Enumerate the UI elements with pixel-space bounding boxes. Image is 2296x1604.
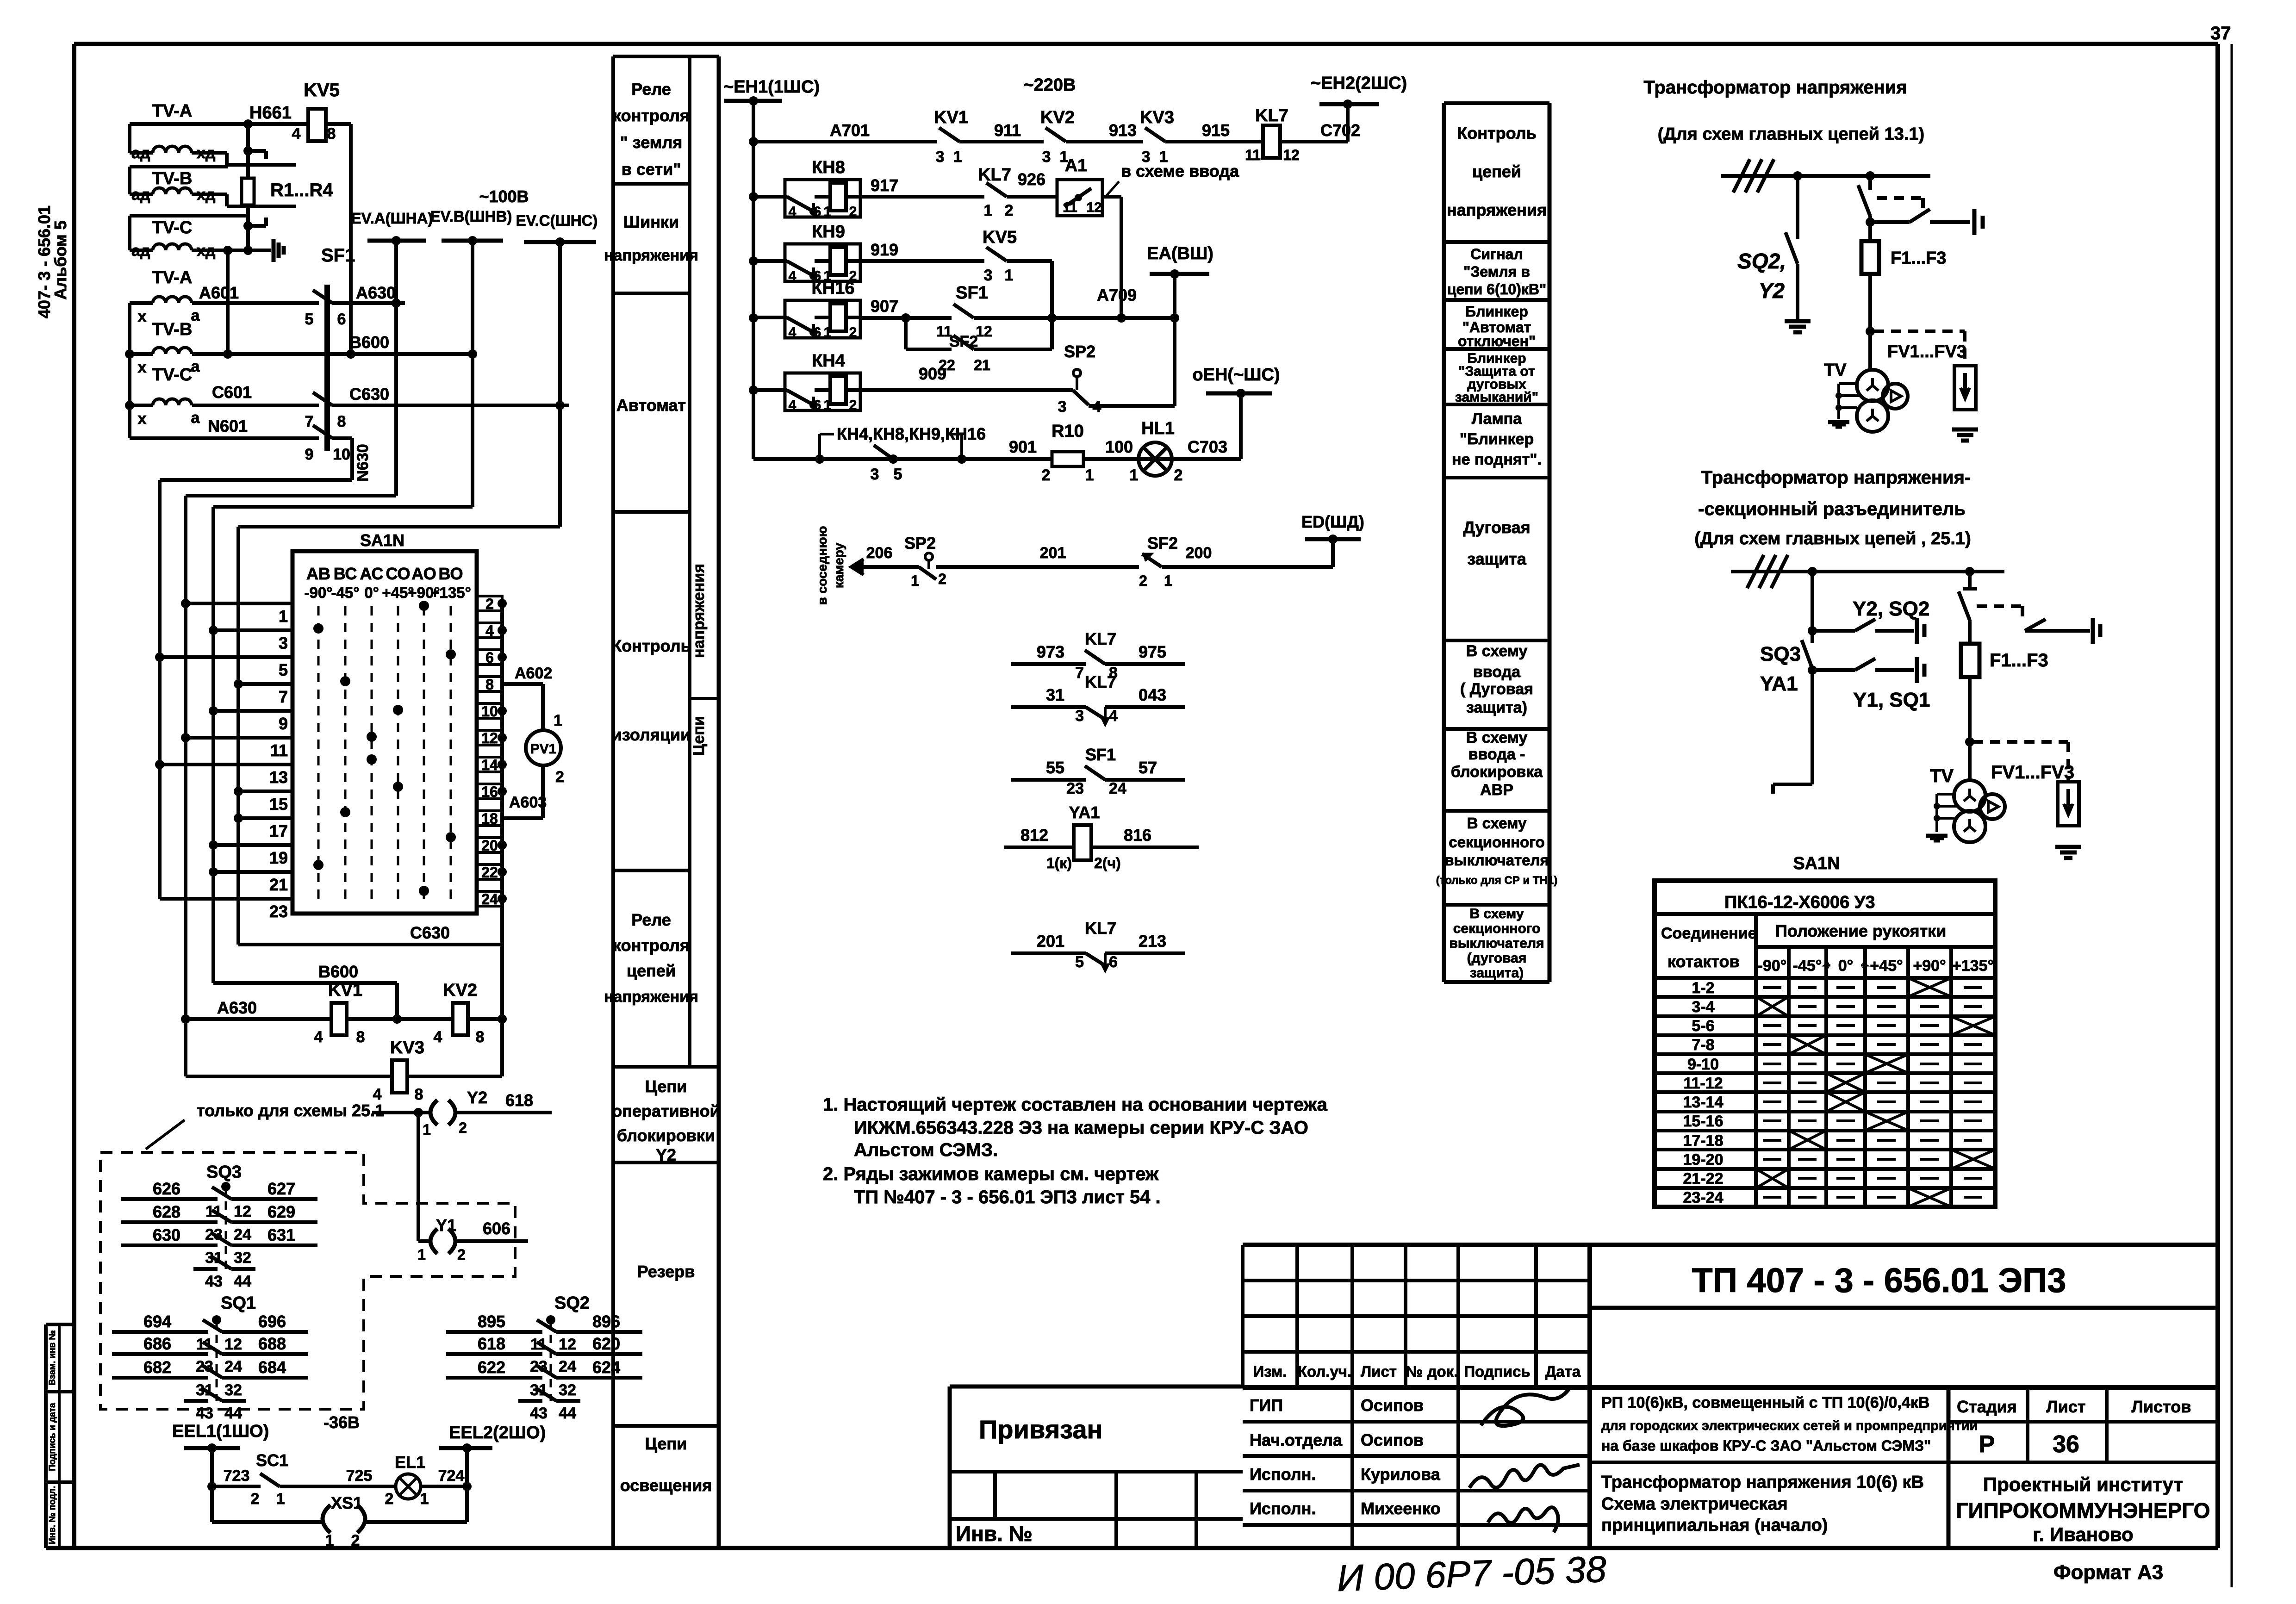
svg-text:4: 4 xyxy=(789,204,796,219)
svg-text:23-24: 23-24 xyxy=(1683,1189,1724,1206)
svg-text:цепей: цепей xyxy=(627,961,676,980)
svg-text:защита: защита xyxy=(1467,549,1527,568)
svg-text:Положение рукоятки: Положение рукоятки xyxy=(1775,921,1946,940)
svg-text:1: 1 xyxy=(417,1246,426,1263)
svg-text:KV5: KV5 xyxy=(983,228,1017,247)
svg-text:7-8: 7-8 xyxy=(1692,1036,1714,1054)
svg-text:АО: АО xyxy=(411,564,436,583)
svg-text:ввода -: ввода - xyxy=(1468,746,1525,763)
svg-text:Курилова: Курилова xyxy=(1361,1465,1441,1484)
svg-text:907: 907 xyxy=(871,297,898,316)
svg-text:18: 18 xyxy=(481,810,498,827)
svg-text:Y2: Y2 xyxy=(656,1145,676,1164)
svg-text:-45°: -45° xyxy=(1793,957,1822,975)
svg-text:x: x xyxy=(138,308,147,325)
svg-text:+45°: +45° xyxy=(1870,957,1903,975)
svg-text:защита): защита) xyxy=(1470,965,1524,981)
svg-text:Подпись: Подпись xyxy=(1464,1363,1530,1380)
svg-text:на базе шкафов КРУ-С ЗАО "Альс: на базе шкафов КРУ-С ЗАО "Альстом СЭМЗ" xyxy=(1601,1437,1931,1454)
svg-text:2: 2 xyxy=(1174,466,1183,484)
svg-text:Реле: Реле xyxy=(631,80,671,99)
svg-text:C601: C601 xyxy=(212,383,252,402)
svg-text:31: 31 xyxy=(1046,685,1064,704)
svg-text:36: 36 xyxy=(2053,1431,2079,1458)
svg-text:32: 32 xyxy=(234,1249,251,1267)
svg-text:Привязан: Привязан xyxy=(979,1415,1102,1444)
svg-text:1: 1 xyxy=(1085,466,1094,484)
svg-text:SF2: SF2 xyxy=(1147,534,1178,553)
svg-text:N601: N601 xyxy=(208,417,248,435)
svg-text:0°: 0° xyxy=(364,584,379,601)
svg-text:606: 606 xyxy=(483,1219,510,1238)
svg-text:10: 10 xyxy=(481,703,498,720)
svg-text:8: 8 xyxy=(337,413,346,430)
svg-text:КН9: КН9 xyxy=(812,222,845,242)
svg-text:KV1: KV1 xyxy=(328,981,362,1000)
svg-text:"Земля в: "Земля в xyxy=(1463,263,1530,280)
svg-text:1: 1 xyxy=(824,325,832,340)
svg-text:Y2: Y2 xyxy=(1759,279,1785,303)
svg-text:13: 13 xyxy=(269,768,288,787)
svg-text:B600: B600 xyxy=(318,962,358,981)
svg-text:ТП 407 - 3 - 656.01 ЭП3: ТП 407 - 3 - 656.01 ЭП3 xyxy=(1692,1261,2066,1299)
svg-text:Стадия: Стадия xyxy=(1957,1397,2017,1416)
svg-text:SA1N: SA1N xyxy=(1793,854,1840,873)
svg-text:Цепи: Цепи xyxy=(645,1434,687,1453)
svg-text:x: x xyxy=(138,359,147,376)
svg-text:"Блинкер: "Блинкер xyxy=(1460,430,1534,448)
svg-text:EV.C(ШНС): EV.C(ШНС) xyxy=(516,212,598,229)
svg-text:контроля: контроля xyxy=(613,936,690,955)
svg-text:оперативной: оперативной xyxy=(612,1101,720,1120)
svg-text:в соседнюю: в соседнюю xyxy=(815,526,829,605)
svg-text:A630: A630 xyxy=(217,998,257,1017)
svg-text:EV.A(ШНА): EV.A(ШНА) xyxy=(351,210,433,227)
svg-text:973: 973 xyxy=(1037,642,1064,661)
svg-text:911: 911 xyxy=(994,121,1021,140)
svg-text:43: 43 xyxy=(205,1273,223,1290)
svg-text:200: 200 xyxy=(1186,544,1212,562)
svg-text:ПК16-12-Х6006 У3: ПК16-12-Х6006 У3 xyxy=(1724,893,1875,912)
svg-text:Нач.отдела: Нач.отдела xyxy=(1250,1430,1343,1449)
svg-text:SA1N: SA1N xyxy=(360,531,404,550)
svg-text:909: 909 xyxy=(919,364,946,383)
svg-text:682: 682 xyxy=(143,1358,171,1377)
svg-text:5-6: 5-6 xyxy=(1692,1017,1714,1035)
svg-text:в сети": в сети" xyxy=(622,160,681,179)
svg-text:EV.B(ШНВ): EV.B(ШНВ) xyxy=(430,208,512,225)
svg-text:ТП №407 - 3 - 656.01 ЭП3 лист: ТП №407 - 3 - 656.01 ЭП3 лист 54 . xyxy=(854,1187,1161,1207)
svg-text:975: 975 xyxy=(1139,642,1166,661)
svg-text:SQ2: SQ2 xyxy=(554,1293,590,1313)
svg-text:15-16: 15-16 xyxy=(1683,1113,1724,1130)
svg-text:x: x xyxy=(138,410,147,428)
svg-text:a: a xyxy=(191,358,200,375)
svg-text:A709: A709 xyxy=(1097,286,1137,305)
svg-text:секционного: секционного xyxy=(1453,921,1541,936)
svg-text:7: 7 xyxy=(1075,664,1084,682)
svg-text:котактов: котактов xyxy=(1668,952,1740,971)
svg-text:3: 3 xyxy=(871,466,879,483)
svg-text:1-2: 1-2 xyxy=(1692,979,1714,997)
svg-text:21: 21 xyxy=(269,875,288,894)
svg-text:a: a xyxy=(191,409,200,427)
svg-text:3: 3 xyxy=(279,634,288,653)
svg-text:627: 627 xyxy=(268,1179,295,1198)
svg-text:Резерв: Резерв xyxy=(637,1262,695,1281)
svg-text:Реле: Реле xyxy=(631,910,671,929)
svg-text:1: 1 xyxy=(984,202,993,219)
svg-text:2: 2 xyxy=(849,398,857,413)
svg-text:Шинки: Шинки xyxy=(623,212,679,231)
svg-text:8: 8 xyxy=(476,1028,485,1046)
svg-text:6: 6 xyxy=(814,398,821,413)
svg-text:2: 2 xyxy=(555,768,564,786)
svg-text:Альбом 5: Альбом 5 xyxy=(51,220,70,299)
svg-text:55: 55 xyxy=(1046,758,1064,777)
svg-text:1. Настоящий чертеж составлен: 1. Настоящий чертеж составлен на основан… xyxy=(823,1094,1328,1115)
svg-text:16: 16 xyxy=(481,783,498,800)
svg-text:Контроль: Контроль xyxy=(611,636,691,655)
svg-text:628: 628 xyxy=(153,1202,180,1221)
svg-text:2. Ряды зажимов камеры см. че: 2. Ряды зажимов камеры см. чертеж xyxy=(823,1164,1159,1184)
svg-text:СО: СО xyxy=(386,564,410,583)
svg-text:44: 44 xyxy=(559,1405,576,1422)
svg-text:-36В: -36В xyxy=(324,1413,360,1432)
svg-text:Трансформатор напряжения: Трансформатор напряжения xyxy=(1643,77,1907,98)
svg-text:АВ: АВ xyxy=(306,564,330,583)
svg-text:АС: АС xyxy=(360,564,383,583)
svg-text:ЕА(ВШ): ЕА(ВШ) xyxy=(1147,244,1213,263)
svg-text:6: 6 xyxy=(485,649,494,666)
svg-text:Цепи: Цепи xyxy=(645,1077,687,1096)
svg-text:HL1: HL1 xyxy=(1141,419,1175,438)
svg-text:~EH2(2ШС): ~EH2(2ШС) xyxy=(1311,74,1407,93)
svg-text:4: 4 xyxy=(434,1028,442,1046)
svg-text:FV1...FV3: FV1...FV3 xyxy=(1887,342,1966,361)
svg-text:213: 213 xyxy=(1139,932,1166,951)
svg-text:напряжения: напряжения xyxy=(604,988,698,1006)
svg-text:43: 43 xyxy=(196,1405,213,1422)
svg-text:917: 917 xyxy=(871,176,898,195)
svg-text:919: 919 xyxy=(871,240,898,259)
svg-text:723: 723 xyxy=(224,1467,250,1485)
svg-text:Изм.: Изм. xyxy=(1253,1363,1287,1380)
svg-text:812: 812 xyxy=(1020,826,1048,845)
svg-text:SQ3: SQ3 xyxy=(206,1163,242,1182)
svg-text:1: 1 xyxy=(824,398,832,413)
svg-text:6: 6 xyxy=(814,204,821,219)
svg-text:896: 896 xyxy=(592,1312,620,1331)
svg-text:9: 9 xyxy=(305,446,314,463)
svg-text:2(ч): 2(ч) xyxy=(1094,855,1121,871)
svg-text:5: 5 xyxy=(305,311,314,328)
svg-text:A602: A602 xyxy=(515,665,552,682)
svg-text:10: 10 xyxy=(333,446,350,463)
svg-text:ВО: ВО xyxy=(438,564,463,583)
svg-text:(Для схем главных цепей 13.1): (Для схем главных цепей 13.1) xyxy=(1658,124,1924,144)
svg-text:TV-A: TV-A xyxy=(152,268,193,287)
svg-text:1: 1 xyxy=(1005,267,1014,284)
svg-text:14: 14 xyxy=(481,757,498,773)
svg-text:23: 23 xyxy=(269,902,288,921)
svg-text:Формат А3: Формат А3 xyxy=(2053,1561,2163,1584)
svg-text:12: 12 xyxy=(1086,200,1101,215)
svg-text:3: 3 xyxy=(1042,148,1051,166)
svg-text:KV3: KV3 xyxy=(390,1038,424,1057)
svg-text:201: 201 xyxy=(1037,932,1064,951)
svg-text:R1...R4: R1...R4 xyxy=(270,180,333,200)
svg-text:895: 895 xyxy=(478,1312,505,1331)
svg-text:724: 724 xyxy=(438,1467,465,1485)
svg-text:г. Иваново: г. Иваново xyxy=(2033,1523,2133,1545)
svg-text:R10: R10 xyxy=(1052,422,1084,441)
svg-text:KV5: KV5 xyxy=(304,80,340,100)
svg-text:2: 2 xyxy=(459,1119,467,1136)
svg-text:TV: TV xyxy=(1824,361,1847,380)
svg-text:KL7: KL7 xyxy=(1255,106,1288,125)
svg-text:Трансформатор напряжения 10(6): Трансформатор напряжения 10(6) кВ xyxy=(1601,1473,1924,1492)
svg-text:Y1, SQ1: Y1, SQ1 xyxy=(1853,689,1930,711)
svg-text:24: 24 xyxy=(234,1226,251,1243)
svg-text:A701: A701 xyxy=(830,121,870,140)
svg-text:11: 11 xyxy=(1063,200,1077,215)
svg-text:KV2: KV2 xyxy=(1040,108,1075,127)
svg-text:КН4: КН4 xyxy=(812,351,845,371)
svg-text:12: 12 xyxy=(224,1336,242,1353)
svg-text:2: 2 xyxy=(849,325,857,340)
svg-text:4: 4 xyxy=(789,398,796,413)
svg-text:2: 2 xyxy=(485,596,494,612)
svg-text:SP2: SP2 xyxy=(1064,342,1095,361)
svg-text:Осипов: Осипов xyxy=(1361,1396,1424,1415)
svg-text:12: 12 xyxy=(234,1203,251,1220)
svg-text:201: 201 xyxy=(1040,544,1066,562)
svg-text:8: 8 xyxy=(356,1028,365,1046)
svg-text:24: 24 xyxy=(481,891,498,908)
svg-text:Сигнал: Сигнал xyxy=(1470,246,1523,262)
svg-text:1: 1 xyxy=(911,572,919,589)
svg-text:В схему: В схему xyxy=(1470,906,1524,921)
svg-text:блокировки: блокировки xyxy=(617,1126,715,1145)
svg-text:YA1: YA1 xyxy=(1069,803,1100,822)
svg-text:( Дуговая: ( Дуговая xyxy=(1460,680,1533,698)
svg-text:901: 901 xyxy=(1009,437,1037,456)
svg-text:секционного: секционного xyxy=(1449,833,1544,851)
svg-text:В схему: В схему xyxy=(1466,729,1528,746)
svg-text:ГИПРОКОММУНЭНЕРГО: ГИПРОКОММУНЭНЕРГО xyxy=(1956,1498,2210,1523)
svg-text:отключен": отключен" xyxy=(1458,333,1536,349)
svg-text:(только для СР и ТН1): (только для СР и ТН1) xyxy=(1436,874,1557,887)
svg-text:2: 2 xyxy=(385,1490,394,1508)
svg-text:1: 1 xyxy=(276,1490,285,1508)
svg-text:725: 725 xyxy=(346,1467,373,1485)
svg-text:KL7: KL7 xyxy=(1085,629,1116,648)
svg-text:4: 4 xyxy=(485,622,494,639)
svg-text:630: 630 xyxy=(153,1225,180,1244)
svg-text:17: 17 xyxy=(269,821,288,840)
svg-text:-секционный разъединитель: -секционный разъединитель xyxy=(1698,499,1966,519)
svg-text:2: 2 xyxy=(1042,466,1051,484)
svg-text:ВС: ВС xyxy=(334,564,357,583)
svg-text:Y2, SQ2: Y2, SQ2 xyxy=(1853,597,1929,620)
svg-text:23: 23 xyxy=(1066,780,1084,797)
svg-text:100: 100 xyxy=(1105,437,1133,456)
svg-text:624: 624 xyxy=(592,1358,620,1377)
svg-text:Михеенко: Михеенко xyxy=(1361,1499,1441,1518)
svg-text:2: 2 xyxy=(457,1246,466,1263)
svg-text:SF1: SF1 xyxy=(1085,745,1116,764)
svg-text:11-12: 11-12 xyxy=(1683,1075,1723,1092)
svg-text:SP2: SP2 xyxy=(904,534,936,553)
svg-text:контроля: контроля xyxy=(613,106,690,125)
svg-text:(Для схем главных цепей , 25.: (Для схем главных цепей , 25.1) xyxy=(1694,529,1971,548)
svg-text:926: 926 xyxy=(1018,170,1045,189)
svg-text:принципиальная (начало): принципиальная (начало) xyxy=(1601,1516,1828,1535)
svg-text:KL7: KL7 xyxy=(1085,919,1116,938)
svg-text:C703: C703 xyxy=(1188,437,1227,456)
svg-text:камеру: камеру xyxy=(832,542,846,588)
svg-text:57: 57 xyxy=(1139,758,1157,777)
svg-text:19-20: 19-20 xyxy=(1683,1151,1724,1169)
svg-text:TV-A: TV-A xyxy=(152,101,193,121)
svg-text:SC1: SC1 xyxy=(256,1451,288,1470)
svg-text:37: 37 xyxy=(2210,23,2231,44)
svg-text:629: 629 xyxy=(268,1202,295,1221)
svg-text:2: 2 xyxy=(849,204,857,219)
svg-text:только для схемы 25.1: только для схемы 25.1 xyxy=(197,1101,384,1120)
svg-text:(дуговая: (дуговая xyxy=(1467,951,1527,966)
svg-text:напряжения: напряжения xyxy=(1447,200,1547,219)
svg-text:цепей: цепей xyxy=(1472,162,1521,181)
svg-text:1: 1 xyxy=(554,712,562,729)
svg-text:2: 2 xyxy=(1005,202,1014,219)
svg-text:6: 6 xyxy=(337,311,346,328)
svg-text:1: 1 xyxy=(824,204,832,219)
svg-text:В схему: В схему xyxy=(1467,814,1527,832)
svg-text:19: 19 xyxy=(269,848,288,867)
svg-text:освещения: освещения xyxy=(620,1476,712,1495)
svg-text:11: 11 xyxy=(270,741,288,760)
svg-text:8: 8 xyxy=(415,1086,423,1103)
svg-text:2: 2 xyxy=(351,1532,360,1549)
svg-text:1: 1 xyxy=(325,1532,334,1549)
svg-text:KV1: KV1 xyxy=(934,108,968,127)
svg-text:Y1: Y1 xyxy=(436,1216,456,1235)
svg-text:Y2: Y2 xyxy=(467,1088,487,1107)
svg-text:C630: C630 xyxy=(410,923,450,942)
svg-text:ЕD(ШД): ЕD(ШД) xyxy=(1301,512,1364,531)
svg-text:4: 4 xyxy=(314,1028,323,1046)
svg-text:напряжения: напряжения xyxy=(604,247,698,264)
svg-text:20: 20 xyxy=(481,837,498,854)
svg-text:Взам. инв №: Взам. инв № xyxy=(48,1330,57,1385)
svg-text:~220В: ~220В xyxy=(1023,75,1076,95)
svg-text:KV2: KV2 xyxy=(443,981,477,1000)
svg-text:1: 1 xyxy=(953,148,962,166)
svg-text:Р: Р xyxy=(1979,1431,1995,1458)
svg-text:A603: A603 xyxy=(509,794,547,811)
svg-text:3: 3 xyxy=(1075,707,1084,725)
svg-text:-90°: -90° xyxy=(1758,957,1787,975)
svg-text:24: 24 xyxy=(559,1358,576,1375)
svg-text:SF1: SF1 xyxy=(956,283,988,303)
svg-text:2: 2 xyxy=(938,571,946,587)
svg-text:913: 913 xyxy=(1109,121,1137,140)
svg-text:17-18: 17-18 xyxy=(1683,1132,1724,1150)
svg-text:620: 620 xyxy=(592,1334,620,1353)
svg-text:PV1: PV1 xyxy=(530,741,557,757)
svg-text:ад: ад xyxy=(131,186,150,204)
svg-text:EL1: EL1 xyxy=(395,1453,425,1472)
svg-text:А1: А1 xyxy=(1065,156,1088,175)
svg-text:1: 1 xyxy=(1130,466,1139,484)
svg-text:15: 15 xyxy=(269,795,288,814)
svg-text:KL7: KL7 xyxy=(1085,672,1116,691)
svg-text:696: 696 xyxy=(258,1312,286,1331)
svg-text:Автомат: Автомат xyxy=(616,396,686,415)
svg-text:выключателя: выключателя xyxy=(1444,852,1549,869)
svg-text:Лист: Лист xyxy=(2046,1397,2085,1416)
svg-text:Исполн.: Исполн. xyxy=(1250,1499,1316,1518)
svg-text:4: 4 xyxy=(1109,707,1118,725)
svg-text:21: 21 xyxy=(974,357,990,373)
svg-text:688: 688 xyxy=(258,1334,286,1353)
svg-text:EEL2(2ШО): EEL2(2ШО) xyxy=(449,1423,546,1442)
svg-text:a: a xyxy=(191,307,200,324)
svg-text:Кол.уч.: Кол.уч. xyxy=(1298,1363,1351,1380)
svg-text:2: 2 xyxy=(1139,572,1147,589)
svg-text:SF1: SF1 xyxy=(321,245,355,266)
svg-text:SQ2,: SQ2, xyxy=(1737,249,1786,273)
svg-text:32: 32 xyxy=(559,1381,576,1399)
svg-text:Трансформатор напряжения-: Трансформатор напряжения- xyxy=(1701,467,1971,488)
svg-text:3: 3 xyxy=(936,148,945,166)
svg-text:напряжения: напряжения xyxy=(690,564,708,658)
svg-text:32: 32 xyxy=(224,1381,242,1399)
svg-text:N630: N630 xyxy=(354,444,372,481)
svg-text:KV3: KV3 xyxy=(1140,108,1174,127)
svg-text:4: 4 xyxy=(789,325,796,340)
svg-text:13-14: 13-14 xyxy=(1683,1094,1724,1111)
svg-text:H661: H661 xyxy=(249,103,292,123)
svg-text:РП 10(6)кВ, совмещенный с ТП 1: РП 10(6)кВ, совмещенный с ТП 10(6)/0,4кВ xyxy=(1601,1394,1929,1411)
svg-text:замыканий": замыканий" xyxy=(1455,390,1538,405)
svg-text:B600: B600 xyxy=(349,333,389,352)
svg-text:618: 618 xyxy=(478,1334,505,1353)
svg-text:3: 3 xyxy=(1058,398,1067,416)
svg-text:1: 1 xyxy=(1164,572,1172,589)
svg-text:~100В: ~100В xyxy=(479,187,529,206)
svg-text:F1...F3: F1...F3 xyxy=(1990,650,2048,671)
svg-text:Альстом СЭМЗ.: Альстом СЭМЗ. xyxy=(854,1140,998,1160)
svg-text:11: 11 xyxy=(1245,147,1261,163)
svg-text:Схема электрическая: Схема электрическая xyxy=(1601,1494,1788,1514)
svg-text:7: 7 xyxy=(305,413,314,430)
svg-text:043: 043 xyxy=(1139,685,1166,704)
svg-text:3: 3 xyxy=(984,267,993,284)
svg-text:Контроль: Контроль xyxy=(1457,124,1536,143)
svg-text:Подпись и дата: Подпись и дата xyxy=(48,1403,57,1471)
svg-text:44: 44 xyxy=(224,1405,242,1422)
svg-text:Дуговая: Дуговая xyxy=(1463,518,1530,537)
svg-text:6: 6 xyxy=(1109,953,1118,971)
svg-text:FV1...FV3: FV1...FV3 xyxy=(1991,762,2074,783)
svg-text:+135°: +135° xyxy=(430,584,471,601)
svg-text:Соединение: Соединение xyxy=(1661,925,1757,942)
svg-text:АВР: АВР xyxy=(1480,781,1513,799)
svg-text:SQ1: SQ1 xyxy=(221,1293,256,1313)
